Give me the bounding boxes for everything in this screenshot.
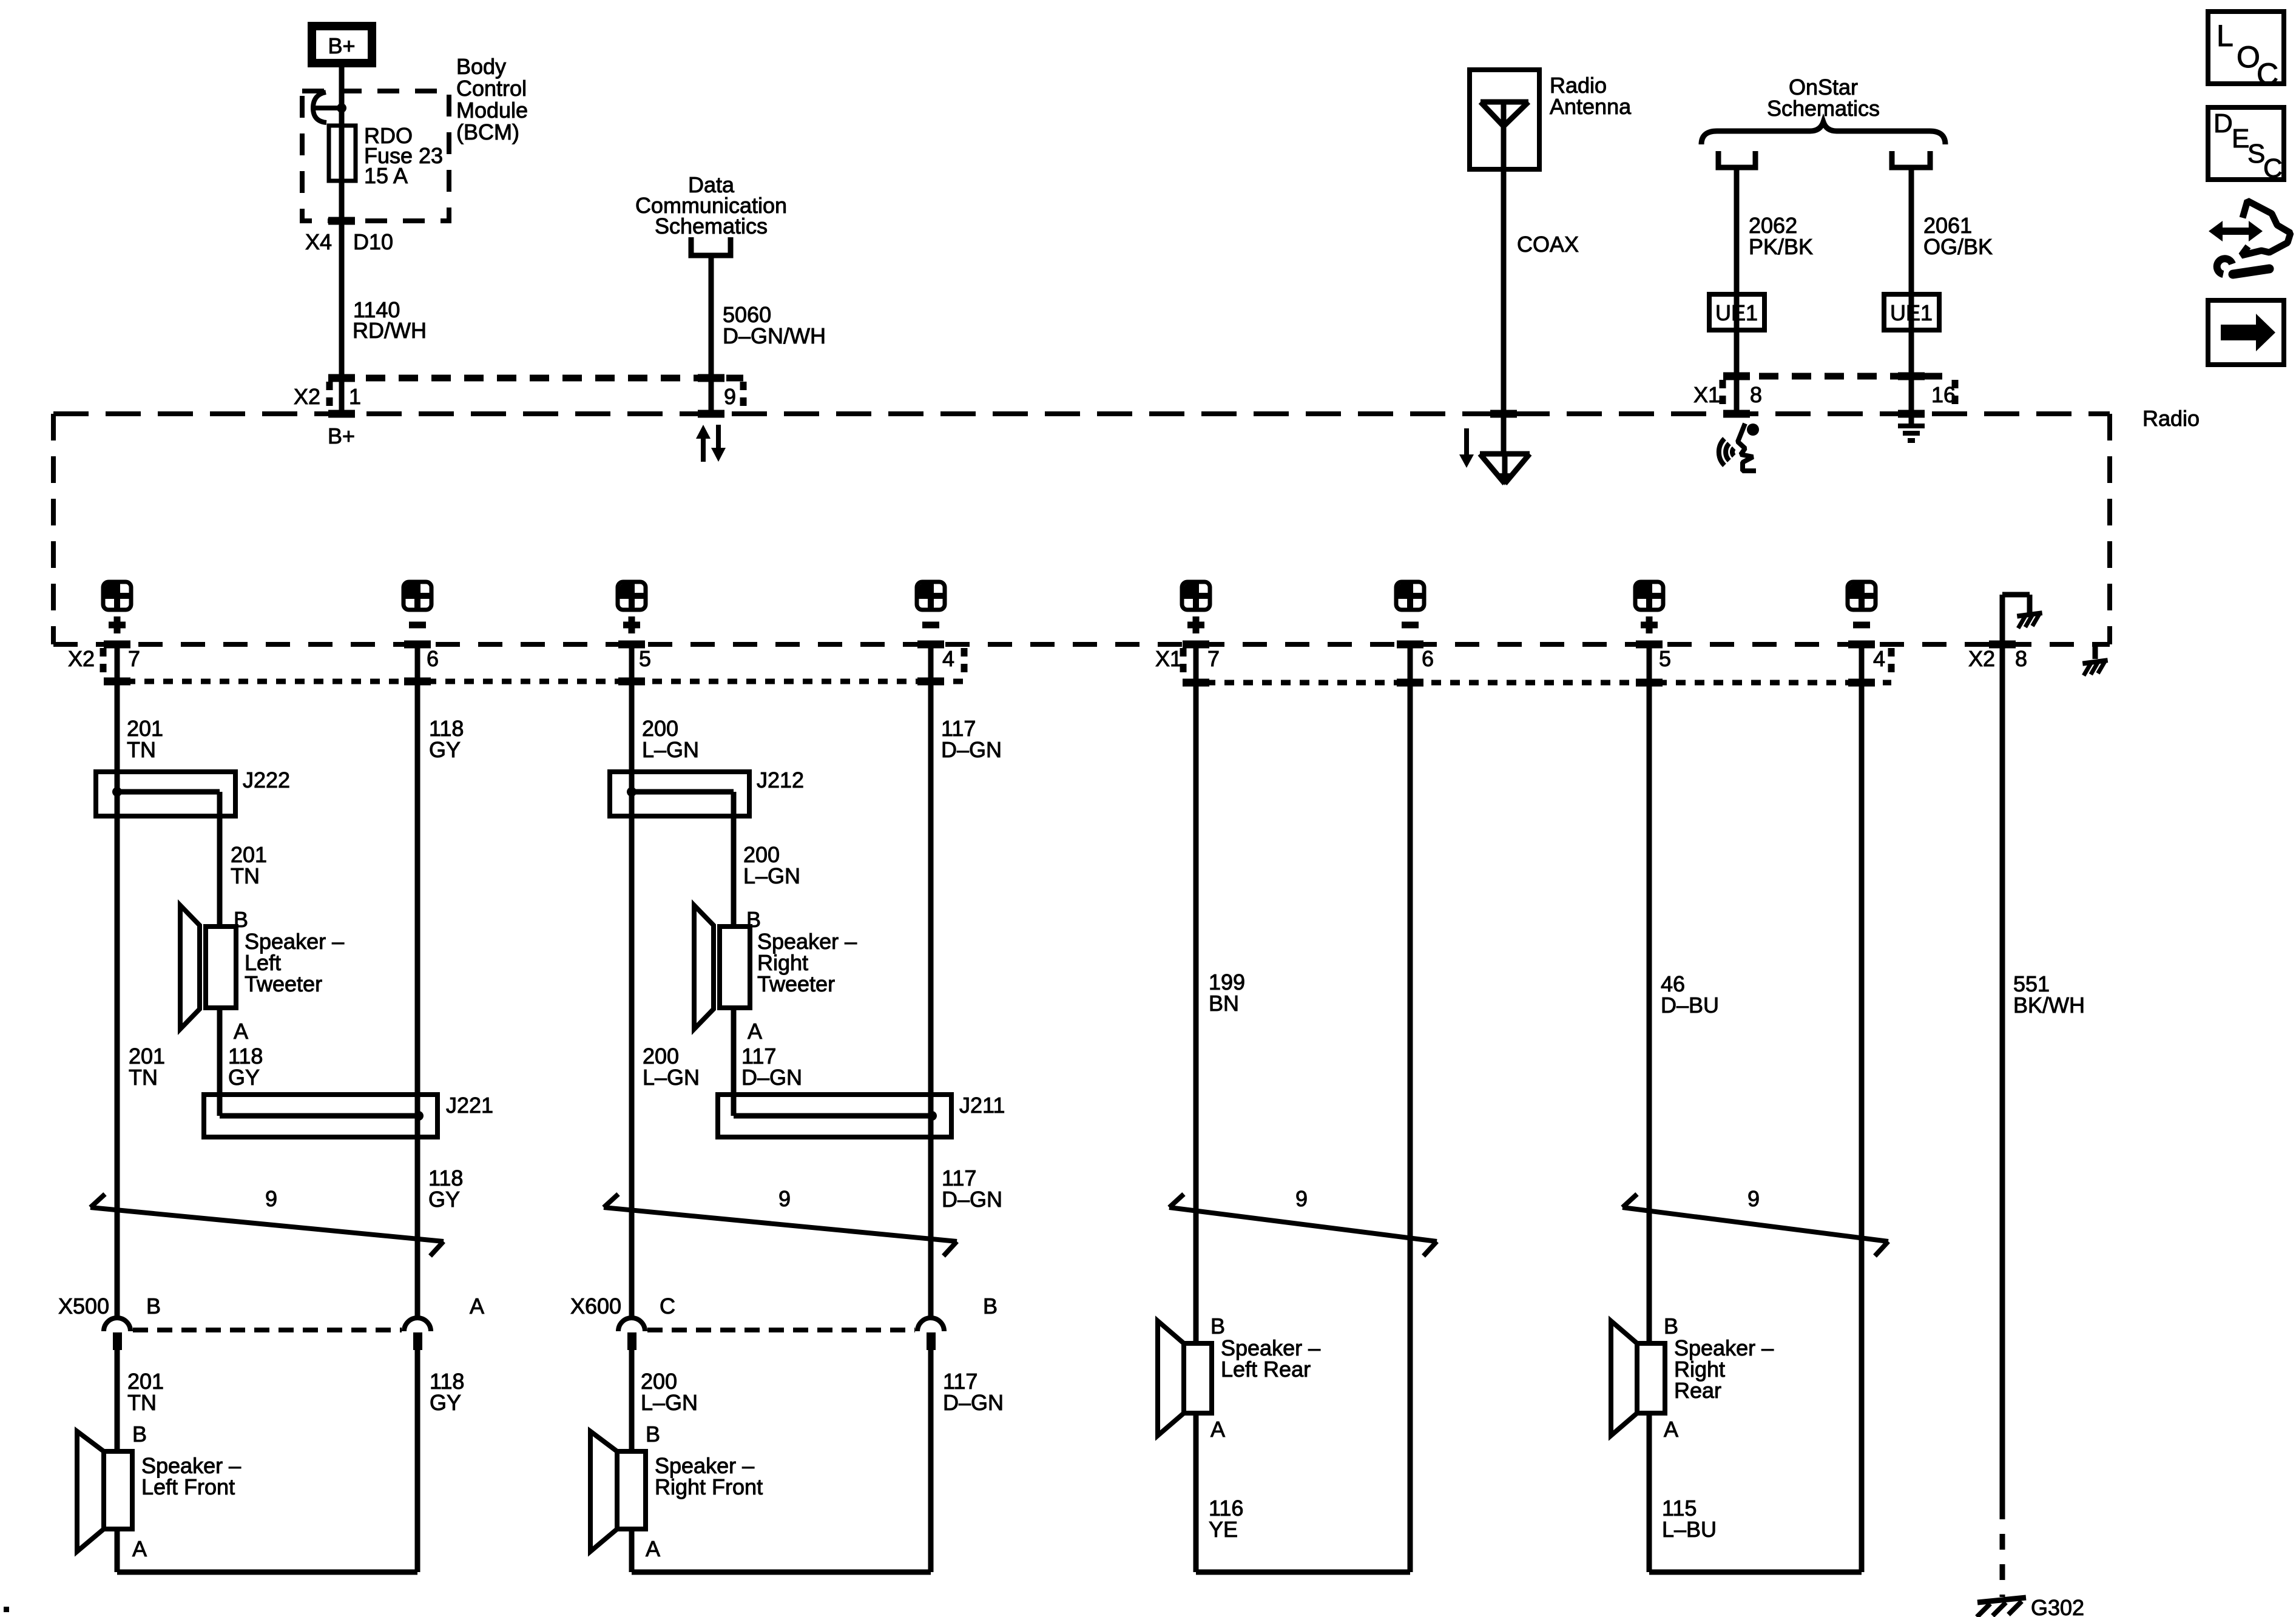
svg-text:GY: GY [428, 1187, 460, 1212]
svg-text:X500: X500 [58, 1294, 109, 1318]
svg-text:15 A: 15 A [364, 163, 408, 188]
svg-text:A: A [470, 1294, 484, 1318]
svg-text:C: C [660, 1294, 675, 1318]
label Speaker Right Rear [1674, 1335, 1774, 1403]
svg-text:16: 16 [1931, 382, 1956, 407]
speaker right tweeter symbol [694, 905, 750, 1029]
svg-text:D–GN: D–GN [941, 737, 1002, 762]
wire 1140 RD/WH from B+ to radio X2-1 [339, 63, 345, 414]
power feed B+ box [312, 26, 372, 63]
svg-text:7: 7 [1207, 646, 1220, 671]
svg-text:4: 4 [942, 646, 954, 671]
wire right rear return loop [1649, 1413, 1862, 1572]
labels X2 7 6 5 4 [68, 646, 954, 671]
wire 200 L-GN below X600 [629, 1350, 635, 1451]
inline connector X600 [570, 1294, 998, 1350]
wire 5060 D-GN/WH [709, 255, 714, 414]
wire right front return loop [632, 1529, 931, 1572]
pin tick X1-8 top [1723, 376, 1750, 414]
speaker output icon X2-7 [103, 581, 132, 633]
speaker output icon X1-4 [1847, 581, 1876, 625]
svg-text:D–GN: D–GN [741, 1065, 802, 1090]
svg-text:D–GN: D–GN [943, 1390, 1004, 1415]
wire 46 D-BU X1-5 [1647, 644, 1652, 1343]
wire label 115 L-BU [1662, 1496, 1717, 1542]
pin tick X2-9 [698, 378, 724, 414]
wire label 200 L-GN lower [641, 1369, 698, 1415]
fusible-link hook symbol [313, 92, 337, 123]
wire 117 D-GN below X600 [928, 1350, 934, 1572]
wire label 118 GY upper [429, 716, 464, 762]
svg-text:6: 6 [427, 646, 439, 671]
junction node in BCM [337, 103, 346, 113]
wire label 2061 OG/BK [1923, 213, 1993, 259]
radio antenna box [1470, 70, 1539, 169]
connector X1 bottom row dotted line [1183, 648, 1891, 683]
speaker left rear symbol [1158, 1321, 1212, 1436]
label Speaker Left Tweeter [245, 929, 344, 996]
pin labels X4 D10 [305, 221, 393, 254]
splice J212 [610, 772, 749, 927]
speaker output icon X1-5 [1635, 581, 1664, 633]
svg-text:X600: X600 [570, 1294, 621, 1318]
svg-text:Schematics: Schematics [655, 214, 768, 238]
wire 201 TN X2-7 [115, 644, 120, 1318]
icon harness arrows [2209, 201, 2291, 255]
svg-text:TN: TN [127, 1390, 157, 1415]
wire 116 YE X1-6 [1408, 644, 1413, 1572]
onstar left connector bracket [1718, 151, 1755, 167]
svg-text:C: C [2263, 154, 2283, 183]
svg-text:B: B [132, 1422, 147, 1447]
connector X2 bottom row dotted line [103, 648, 964, 681]
label J222 [243, 768, 290, 792]
wire label 116 YE [1209, 1496, 1243, 1542]
svg-text:L–BU: L–BU [1662, 1517, 1717, 1542]
labels X1 8 16 [1693, 382, 1956, 407]
terminal B left front [132, 1422, 147, 1447]
pin tick X1-16 top [1898, 376, 1925, 414]
svg-text:9: 9 [724, 384, 736, 409]
svg-text:9: 9 [1295, 1186, 1308, 1211]
svg-text:A: A [646, 1536, 660, 1561]
terminal B right front [646, 1422, 660, 1447]
twisted pair marker 9 front left [90, 1186, 444, 1256]
wire 551 dashed segment [2000, 1504, 2005, 1597]
svg-text:7: 7 [128, 646, 140, 671]
label J212 [757, 768, 804, 792]
wire left tweeter A to J221 [217, 1008, 223, 1116]
wire 118 GY below X500 [415, 1350, 420, 1572]
ground G302 [1977, 1598, 2026, 1617]
svg-text:UE1: UE1 [1715, 300, 1758, 325]
pin tick X1-5 [1636, 644, 1663, 683]
svg-text:GY: GY [430, 1390, 461, 1415]
wire label 201 TN lower [127, 1369, 164, 1415]
svg-text:B+: B+ [328, 33, 355, 58]
svg-text:X2: X2 [1968, 646, 1995, 671]
speaker output icon X2-6 [403, 581, 432, 625]
wire 115 L-BU X1-4 [1859, 644, 1865, 1572]
svg-text:9: 9 [265, 1186, 277, 1211]
svg-text:D–BU: D–BU [1661, 993, 1719, 1018]
svg-text:S: S [2247, 139, 2265, 169]
wire label 118 GY lower [430, 1369, 464, 1415]
label Body Control Module (BCM) [456, 54, 528, 144]
svg-text:L–GN: L–GN [642, 737, 699, 762]
svg-text:J222: J222 [243, 768, 290, 792]
svg-text:BK/WH: BK/WH [2013, 993, 2085, 1018]
option box UE1 left [1709, 294, 1764, 330]
svg-text:A: A [234, 1019, 248, 1044]
speaker right front symbol [590, 1431, 646, 1551]
icon box arrow [2208, 300, 2284, 365]
radio dashed box left edge [51, 414, 56, 644]
svg-text:GY: GY [228, 1065, 260, 1090]
page artifact dot [4, 1607, 9, 1612]
labels X2 8 [1968, 646, 2027, 671]
splice J222 [96, 772, 235, 927]
serial data up/down arrows [696, 425, 726, 462]
svg-text:A: A [1664, 1417, 1678, 1442]
pin tick X2-4 [917, 644, 944, 681]
terminal A left rear [1210, 1417, 1225, 1442]
svg-text:L: L [2217, 19, 2234, 53]
wire right tweeter A to J211 [731, 1008, 737, 1116]
pin tick X2-5 [618, 644, 645, 681]
label Data Communication Schematics [635, 172, 787, 238]
wire label 551 BK/WH [2013, 971, 2085, 1018]
svg-text:B: B [646, 1422, 660, 1447]
radio internal ground jumper [2002, 595, 2030, 644]
svg-text:TN: TN [127, 737, 156, 762]
speaker output icon X2-5 [617, 581, 646, 633]
svg-text:B: B [146, 1294, 161, 1318]
svg-text:5: 5 [639, 646, 651, 671]
label G302 [2031, 1595, 2084, 1617]
svg-text:PK/BK: PK/BK [1749, 234, 1813, 259]
svg-text:Body: Body [456, 54, 506, 79]
speaker left tweeter symbol [180, 905, 236, 1029]
wire label 117 D-GN lower [943, 1369, 1004, 1415]
svg-text:5: 5 [1659, 646, 1671, 671]
svg-text:J212: J212 [757, 768, 804, 792]
label J221 [446, 1093, 493, 1118]
label Speaker Right Front [655, 1453, 763, 1499]
wire 2062 PK/BK [1734, 170, 1740, 414]
inline connector X500 [58, 1294, 484, 1350]
earth ground below X1-16 [1898, 414, 1925, 441]
label Speaker Left Front [141, 1453, 241, 1499]
wire label 201 TN upper [127, 716, 163, 762]
twisted pair marker 9 front right [604, 1186, 957, 1256]
wire label 201 TN mid [129, 1044, 165, 1090]
icon box DESC [2208, 107, 2284, 183]
labels X1 7 6 5 4 [1155, 646, 1885, 671]
label OnStar Schematics [1767, 75, 1880, 121]
svg-text:UE1: UE1 [1890, 300, 1933, 325]
label RDO Fuse 23 15 A [364, 123, 443, 188]
svg-text:Left Rear: Left Rear [1221, 1357, 1311, 1382]
BCM dashed box outline [302, 91, 449, 221]
pin tick X1-7 [1183, 644, 1209, 683]
chassis ground at radio case [2082, 646, 2107, 675]
pin tick X2-1 [328, 378, 355, 414]
wire label 2062 PK/BK [1749, 213, 1813, 259]
pin tick X2-6 [404, 644, 431, 681]
speaker output icon X2-4 [916, 581, 945, 625]
pin tick X1-6 [1397, 644, 1423, 683]
wire 201 TN below X500 [115, 1350, 120, 1451]
wire label 117 D-GN upper [941, 716, 1002, 762]
svg-text:4: 4 [1873, 646, 1885, 671]
wire 551 BK/WH [2000, 644, 2005, 1504]
svg-text:GY: GY [429, 737, 461, 762]
label B+ inside radio [328, 424, 355, 448]
data schematic bracket [691, 237, 731, 255]
connector X2 top row dotted line [329, 378, 743, 410]
wire COAX [1501, 169, 1507, 454]
svg-text:B: B [746, 907, 761, 932]
svg-text:A: A [132, 1536, 147, 1561]
svg-text:A: A [748, 1019, 762, 1044]
svg-text:9: 9 [778, 1186, 791, 1211]
svg-text:YE: YE [1209, 1517, 1238, 1542]
svg-text:L–GN: L–GN [743, 863, 800, 888]
svg-text:BN: BN [1209, 991, 1239, 1016]
terminal A left tweeter [234, 1019, 248, 1044]
svg-text:D: D [2213, 109, 2233, 138]
radio dashed box top edge [53, 411, 2110, 416]
svg-text:Tweeter: Tweeter [757, 971, 835, 996]
option box UE1 right [1884, 294, 1939, 330]
svg-text:B+: B+ [328, 424, 355, 448]
svg-text:8: 8 [1750, 382, 1762, 407]
svg-text:D–GN: D–GN [942, 1187, 1002, 1212]
svg-text:B: B [1210, 1314, 1225, 1338]
svg-text:TN: TN [231, 863, 260, 888]
svg-text:Radio: Radio [2142, 406, 2200, 431]
svg-text:B: B [234, 907, 248, 932]
svg-text:X2: X2 [68, 646, 95, 671]
wire label 200 L-GN branch [743, 842, 800, 888]
pin tick X1-4 [1848, 644, 1875, 683]
terminal A left front [132, 1536, 147, 1561]
wire label 200 L-GN mid [643, 1044, 700, 1090]
label Radio Antenna [1550, 73, 1632, 119]
terminal B right tweeter [746, 907, 761, 932]
twisted pair marker 9 rear right [1622, 1186, 1888, 1256]
terminal A right front [646, 1536, 660, 1561]
svg-text:X1: X1 [1155, 646, 1182, 671]
wire label 117 D-GN branch [741, 1044, 802, 1090]
connector X1 top row dotted line [1723, 376, 1955, 409]
splice J211 [718, 1095, 951, 1137]
fuse RDO Fuse 23 15A [329, 126, 356, 181]
svg-text:X4: X4 [305, 229, 332, 254]
svg-text:G302: G302 [2031, 1595, 2084, 1617]
terminal B right rear [1664, 1314, 1678, 1338]
wire label 5060 D-GN/WH [723, 302, 826, 348]
svg-text:L–GN: L–GN [641, 1390, 698, 1415]
wire left rear return loop [1196, 1413, 1410, 1572]
svg-text:D10: D10 [353, 229, 393, 254]
wire 118 GY X2-6 [415, 644, 420, 1318]
svg-text:D–GN/WH: D–GN/WH [723, 323, 826, 348]
icon wrench [2217, 258, 2269, 274]
wire 117 D-GN X2-4 [928, 644, 934, 1318]
svg-text:J221: J221 [446, 1093, 493, 1118]
twisted pair marker 9 rear left [1169, 1186, 1437, 1256]
wire label 118 GY branch [228, 1044, 263, 1090]
wire label 201 TN branch [231, 842, 267, 888]
svg-text:L–GN: L–GN [643, 1065, 700, 1090]
svg-text:B: B [1664, 1314, 1678, 1338]
label COAX [1517, 232, 1579, 257]
chassis ground internal [2017, 613, 2042, 628]
onstar right connector bracket [1892, 151, 1930, 167]
svg-text:RD/WH: RD/WH [353, 318, 427, 343]
terminal A right rear [1664, 1417, 1678, 1442]
svg-text:Module: Module [456, 98, 528, 123]
speaker left front symbol [77, 1431, 132, 1551]
wire label 117 D-GN below J211 [942, 1166, 1002, 1212]
speaker output icon X1-6 [1396, 581, 1425, 625]
wire label 1140 RD/WH [353, 297, 427, 343]
svg-text:Right Front: Right Front [655, 1474, 763, 1499]
svg-text:Antenna: Antenna [1550, 94, 1632, 119]
svg-text:Control: Control [456, 76, 527, 101]
wire 2061 OG/BK [1909, 170, 1914, 414]
pin tick antenna [1490, 410, 1517, 418]
svg-text:B: B [983, 1294, 998, 1318]
label Speaker Left Rear [1221, 1335, 1320, 1382]
wire left front return loop [117, 1529, 417, 1572]
terminal A right tweeter [748, 1019, 762, 1044]
label Speaker Right Tweeter [757, 929, 857, 996]
pin tick X2-8 [1989, 641, 2016, 649]
icon box LOC [2208, 12, 2284, 91]
svg-text:(BCM): (BCM) [456, 120, 519, 144]
antenna symbol inside radio [1480, 454, 1530, 485]
svg-text:9: 9 [1747, 1186, 1760, 1211]
svg-text:C: C [2257, 57, 2278, 91]
svg-text:J211: J211 [959, 1093, 1005, 1118]
label J211 [959, 1093, 1005, 1118]
pin tick X2-7 [104, 644, 130, 681]
svg-text:Tweeter: Tweeter [245, 971, 322, 996]
wire label 118 GY below J221 [428, 1166, 463, 1212]
radio dashed box bottom edge [53, 642, 2110, 647]
splice J221 [204, 1095, 437, 1137]
svg-text:6: 6 [1422, 646, 1434, 671]
svg-text:X2: X2 [294, 384, 320, 409]
labels X2 1 9 [294, 384, 736, 409]
wire label 46 D-BU [1661, 971, 1719, 1018]
onstar microphone icon [1719, 424, 1759, 471]
svg-text:Rear: Rear [1674, 1378, 1721, 1403]
speaker right rear symbol [1611, 1321, 1665, 1436]
wire label 200 L-GN upper [642, 716, 699, 762]
svg-text:COAX: COAX [1517, 232, 1579, 257]
svg-text:TN: TN [129, 1065, 158, 1090]
wire label 199 BN [1209, 970, 1245, 1016]
antenna input arrow [1459, 428, 1474, 468]
onstar curly brace [1701, 122, 1945, 144]
terminal B left tweeter [234, 907, 248, 932]
speaker output icon X1-7 [1181, 581, 1210, 633]
svg-text:Left Front: Left Front [141, 1474, 235, 1499]
wire 199 BN X1-7 [1194, 644, 1199, 1343]
svg-text:8: 8 [2015, 646, 2027, 671]
svg-text:A: A [1210, 1417, 1225, 1442]
radio dashed box right edge [2107, 414, 2112, 644]
svg-text:1: 1 [349, 384, 361, 409]
svg-text:OG/BK: OG/BK [1923, 234, 1993, 259]
svg-text:X1: X1 [1693, 382, 1720, 407]
label Radio [2142, 406, 2200, 431]
svg-text:E: E [2232, 124, 2249, 154]
terminal B left rear [1210, 1314, 1225, 1338]
wire 200 L-GN X2-5 [629, 644, 635, 1318]
